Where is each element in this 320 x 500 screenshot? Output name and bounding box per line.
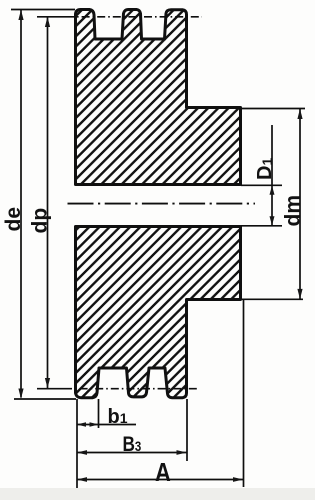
dm bottom extension line xyxy=(242,298,303,300)
dp top extension line (solid part) xyxy=(37,16,66,18)
svg-text:A: A xyxy=(155,458,171,487)
B3 right arrow xyxy=(177,450,187,455)
svg-text:de: de xyxy=(2,207,25,232)
de bottom arrow xyxy=(18,389,23,399)
sprocket lower body section (disc + teeth + hub), hatched xyxy=(76,227,241,398)
b1 right extension line xyxy=(98,399,100,428)
A right arrow xyxy=(233,477,243,482)
top pitch dash-dot line xyxy=(66,16,202,18)
A left arrow xyxy=(77,477,87,482)
de bottom extension line xyxy=(14,398,76,400)
svg-text:dp: dp xyxy=(29,208,52,234)
svg-text:b1: b1 xyxy=(108,406,128,428)
B3 dimension line xyxy=(77,452,187,454)
D1 dimension line xyxy=(271,125,273,225)
dp bottom arrow xyxy=(45,378,50,388)
bottom scan shading strip xyxy=(0,488,315,500)
b1 dimension line xyxy=(77,424,136,426)
bottom pitch extension (solid part) xyxy=(37,388,64,390)
svg-text:D1: D1 xyxy=(254,158,276,180)
B3 left arrow xyxy=(77,450,87,455)
dm bottom arrow xyxy=(297,289,302,299)
b1 left arrow xyxy=(77,422,86,427)
de dimension line xyxy=(20,10,22,398)
bore bottom extension line (D1) xyxy=(241,225,282,227)
B3 right extension line xyxy=(186,399,188,461)
sprocket upper body section (disc + teeth + hub), hatched xyxy=(76,10,241,398)
A dimension line xyxy=(77,479,243,481)
svg-text:B3: B3 xyxy=(123,434,142,457)
svg-text:dm: dm xyxy=(282,195,305,227)
de top extension line xyxy=(11,9,75,11)
bottom pitch dash-dot line xyxy=(64,388,199,390)
dp top arrow xyxy=(45,17,50,27)
dp dimension line xyxy=(47,17,49,388)
dm top extension line xyxy=(242,108,305,110)
D1 top arrow xyxy=(270,186,275,195)
left extension line (b1/B3/A) xyxy=(76,399,78,488)
A right extension line xyxy=(243,300,245,487)
dm top arrow xyxy=(297,109,302,119)
centerline dash-dot xyxy=(68,203,256,205)
D1 bottom arrow xyxy=(270,216,275,225)
bore top extension line (D1) xyxy=(241,184,282,186)
b1 right arrow xyxy=(90,422,99,427)
dm dimension line xyxy=(299,109,301,299)
de top arrow xyxy=(18,10,23,20)
